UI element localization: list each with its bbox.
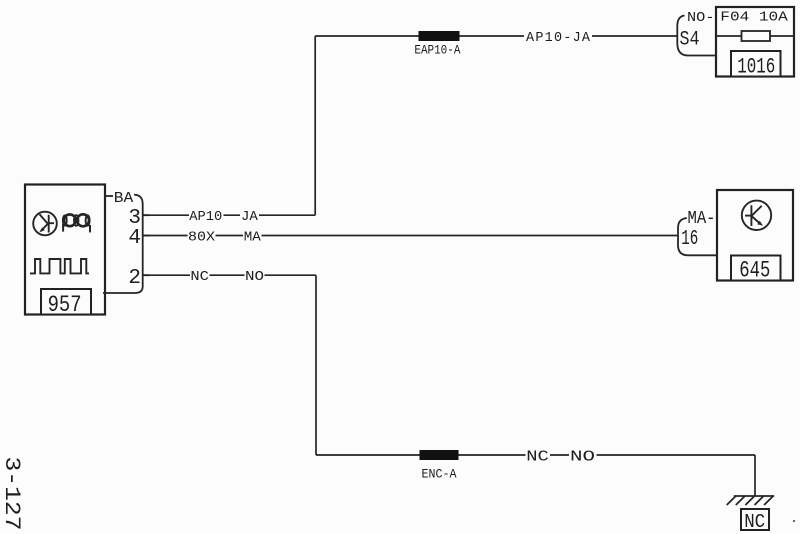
svg-text:AP10: AP10 <box>189 210 222 225</box>
wire pin2 NC-NO <box>143 275 316 455</box>
svg-text:BA: BA <box>114 190 134 207</box>
component 957 box <box>25 185 105 315</box>
speck <box>793 520 795 522</box>
fuse box F04 <box>716 7 794 77</box>
svg-text:F04 10A: F04 10A <box>720 10 788 26</box>
svg-text:MA: MA <box>244 230 262 245</box>
ground label NC <box>741 509 769 530</box>
fuse box divider <box>716 35 794 37</box>
svg-text:645: 645 <box>739 257 770 283</box>
svg-text:NC: NC <box>526 450 549 466</box>
connector BA bracket <box>103 195 150 293</box>
coil / winding symbol inside 957 <box>64 214 89 226</box>
square wave signal symbol inside 957 <box>30 259 89 273</box>
splice EAP10-A <box>419 31 460 41</box>
value label 1016 <box>731 51 781 77</box>
svg-text:1016: 1016 <box>737 54 775 79</box>
svg-text:S4: S4 <box>680 29 700 52</box>
svg-text:3-127: 3-127 <box>0 457 24 531</box>
svg-text:EAP10-A: EAP10-A <box>414 43 460 58</box>
value label 957 <box>41 289 91 318</box>
svg-text:16: 16 <box>681 228 698 251</box>
wire pin4 80X-MA <box>143 235 678 237</box>
ground symbol <box>727 496 775 505</box>
svg-text:JA: JA <box>241 210 259 225</box>
svg-text:NC: NC <box>190 270 209 285</box>
component 645 box <box>717 190 793 281</box>
K symbol in circle (645) <box>742 201 771 230</box>
svg-text:80X: 80X <box>188 230 215 245</box>
svg-text:AP10-JA: AP10-JA <box>526 31 591 46</box>
connector S4 <box>677 16 716 56</box>
connector 16 / MA <box>678 218 717 255</box>
svg-text:2: 2 <box>128 267 141 290</box>
svg-text:ENC-A: ENC-A <box>422 466 457 481</box>
svg-text:NC: NC <box>744 511 765 533</box>
sensor symbol (mirrored K in circle) inside 957 <box>33 212 57 236</box>
splice ENC-A <box>420 450 459 460</box>
svg-text:NO: NO <box>570 450 595 466</box>
svg-text:957: 957 <box>48 292 82 318</box>
wire bottom NC-NO to ground <box>316 455 755 496</box>
svg-text:4: 4 <box>128 227 141 250</box>
svg-text:NO: NO <box>245 270 264 285</box>
svg-text:MA-: MA- <box>688 209 716 229</box>
fuse symbol <box>742 31 771 41</box>
svg-text:NO-: NO- <box>687 10 715 26</box>
wire pin3 AP10-JA <box>143 214 316 216</box>
wire top AP10-JA to fuse <box>315 36 677 215</box>
value label 645 <box>731 256 781 281</box>
